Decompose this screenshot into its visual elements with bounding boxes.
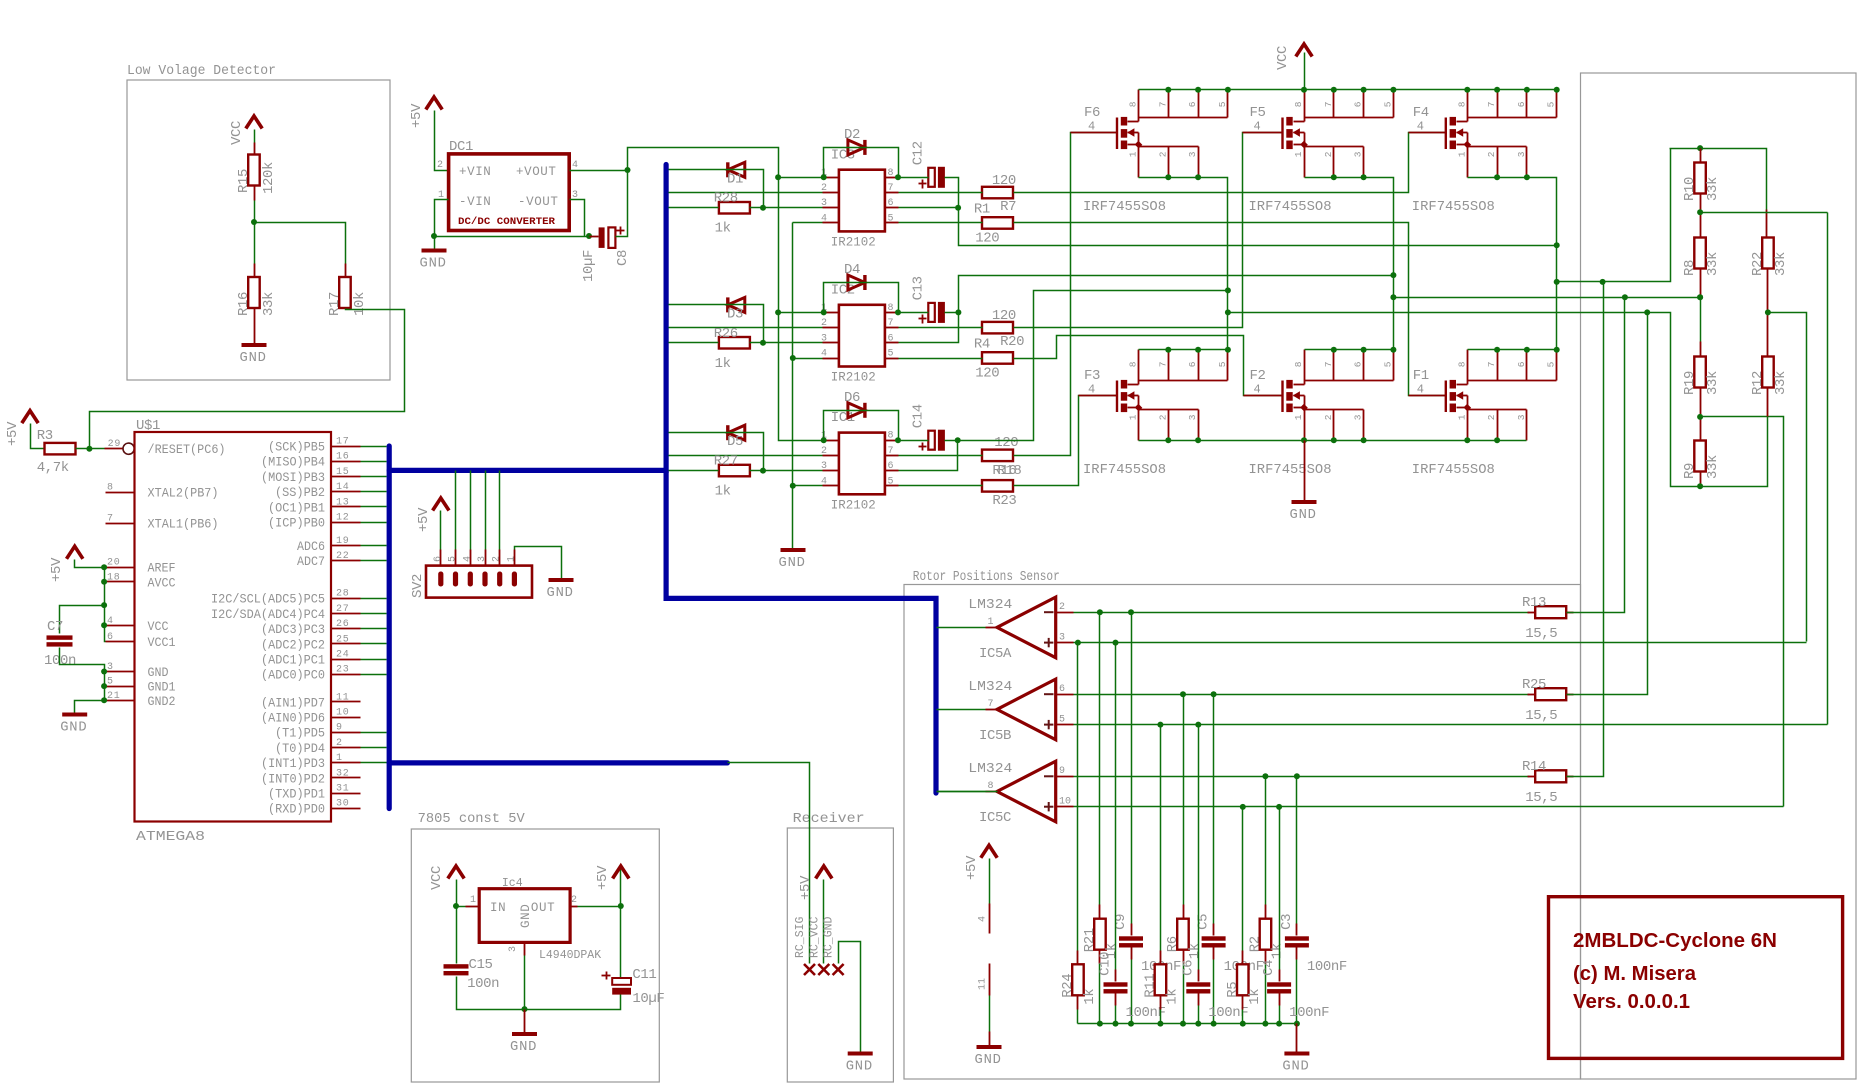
pin 17 (SCK)PB5 <box>268 437 361 455</box>
svg-text:27: 27 <box>336 604 350 615</box>
wire R22 bottom to R12 top, midpoint tap <box>1765 269 1807 642</box>
svg-text:(ADC2)PC2: (ADC2)PC2 <box>261 638 325 652</box>
svg-text:-VOUT: -VOUT <box>518 195 559 209</box>
wire pin 26 to bus <box>361 628 387 630</box>
svg-text:IC3: IC3 <box>831 147 855 163</box>
svg-text:RC_SIG: RC_SIG <box>794 916 807 958</box>
pins 1 2 3 F4 <box>1456 147 1527 178</box>
wire phase C to R10 top <box>1670 148 1701 150</box>
svg-text:3: 3 <box>477 556 488 562</box>
svg-text:100nF: 100nF <box>1307 959 1347 975</box>
frame Receiver box <box>787 812 893 1082</box>
wire IC4 gnd node <box>522 956 528 1033</box>
svg-text:5: 5 <box>1217 361 1228 367</box>
svg-text:20: 20 <box>107 558 121 569</box>
svg-text:R3: R3 <box>37 428 53 444</box>
wire bus to D3 to pin3 node <box>669 305 764 343</box>
resistor R1 120 <box>974 202 1013 247</box>
pin 7 XTAL1(PB6) <box>106 514 219 532</box>
wire COM rail to ground <box>790 223 796 550</box>
wire SV2 pins to bus <box>456 471 500 567</box>
svg-text:R8: R8 <box>1682 260 1698 276</box>
svg-text:D1: D1 <box>727 171 743 187</box>
svg-text:R21: R21 <box>1082 928 1098 952</box>
pin 8 XTAL2(PB7) <box>106 483 219 501</box>
svg-text:7: 7 <box>1323 102 1334 108</box>
wire pin 12 to bus <box>361 522 387 524</box>
wire phase A node <box>1139 174 1228 349</box>
svg-text:R16: R16 <box>236 292 252 316</box>
svg-text:R18: R18 <box>997 463 1021 479</box>
svg-text:4: 4 <box>1417 120 1424 134</box>
svg-text:17: 17 <box>336 437 350 448</box>
wire source ground rail <box>1139 437 1527 500</box>
svg-text:LM324: LM324 <box>968 762 1012 777</box>
svg-text:15,5: 15,5 <box>1525 790 1557 806</box>
svg-text:120: 120 <box>992 173 1016 189</box>
svg-text:IC2: IC2 <box>831 282 855 298</box>
capacitor C6 100nF <box>1180 725 1248 1024</box>
wire divider tap to R17 <box>255 223 346 278</box>
svg-text:R5: R5 <box>1225 982 1241 998</box>
svg-text:(ADC0)PC0: (ADC0)PC0 <box>261 669 325 683</box>
svg-text:7: 7 <box>1157 362 1168 368</box>
svg-text:Vers. 0.0.0.1: Vers. 0.0.0.1 <box>1573 991 1690 1013</box>
svg-text:8: 8 <box>888 303 894 314</box>
svg-text:RC_GND: RC_GND <box>823 916 836 958</box>
diode D5 <box>727 425 745 450</box>
svg-text:6: 6 <box>433 556 444 562</box>
power +5V symbol (AVCC) <box>49 546 83 582</box>
svg-text:IRF7455SO8: IRF7455SO8 <box>1412 463 1495 478</box>
wire pin 23 to bus <box>361 674 387 676</box>
wire SV2 pin1 to ground <box>515 547 562 579</box>
pin 23 (ADC0)PC0 <box>261 665 361 683</box>
power +5V symbol (DC1 input) <box>409 97 442 128</box>
svg-text:(AIN1)PD7: (AIN1)PD7 <box>261 696 325 710</box>
svg-text:4: 4 <box>1417 383 1424 397</box>
svg-text:8: 8 <box>1128 101 1139 107</box>
svg-text:+5V: +5V <box>798 875 814 900</box>
resistor R21 1k <box>1082 613 1120 1024</box>
capacitor C5 100nF <box>1196 695 1264 1024</box>
transistor F5 IRF7455 <box>1243 105 1308 149</box>
svg-text:25: 25 <box>336 634 350 645</box>
frame 7805 box <box>411 812 659 1082</box>
node RC_VCC <box>808 916 829 975</box>
svg-text:IRF7455SO8: IRF7455SO8 <box>1249 200 1332 215</box>
capacitor C9 100nF <box>1113 613 1181 1024</box>
wire pin 2 to bus <box>361 747 387 749</box>
svg-text:+VOUT: +VOUT <box>516 165 557 179</box>
svg-text:IRF7455SO8: IRF7455SO8 <box>1083 463 1166 478</box>
svg-text:18: 18 <box>107 572 121 583</box>
svg-text:C8: C8 <box>615 250 631 266</box>
pin 25 (ADC2)PC2 <box>261 634 361 652</box>
svg-text:3: 3 <box>1059 632 1065 643</box>
wire bootstrap D4 <box>821 283 901 316</box>
pin 19 ADC6 <box>297 536 361 554</box>
svg-text:C13: C13 <box>911 276 927 300</box>
svg-text:3: 3 <box>1353 414 1364 420</box>
svg-text:(MISO)PB4: (MISO)PB4 <box>261 456 325 470</box>
svg-text:AVCC: AVCC <box>148 576 176 590</box>
svg-text:6: 6 <box>888 198 894 209</box>
svg-text:GND: GND <box>846 1060 873 1075</box>
svg-text:8: 8 <box>1293 101 1304 107</box>
pins 8 7 6 5 F2 <box>1293 350 1394 381</box>
svg-text:9: 9 <box>336 723 343 734</box>
svg-text:3: 3 <box>1187 151 1198 157</box>
svg-text:33k: 33k <box>1773 252 1789 276</box>
pin 4 LM324 power <box>978 859 990 934</box>
wire pin 19 to bus <box>361 545 387 547</box>
svg-text:1: 1 <box>470 895 476 906</box>
svg-text:8: 8 <box>1293 361 1304 367</box>
resistor R24 1k <box>1060 643 1098 1024</box>
ground GND (mcu) <box>60 715 87 736</box>
wire C14 left <box>899 440 929 442</box>
resistor R7 120 <box>982 173 1016 215</box>
svg-text:5: 5 <box>1382 361 1393 367</box>
svg-text:+5V: +5V <box>5 421 21 446</box>
svg-text:2: 2 <box>1323 151 1334 157</box>
svg-text:GND: GND <box>148 666 169 680</box>
svg-text:4: 4 <box>1088 120 1095 134</box>
svg-text:6: 6 <box>1516 101 1527 107</box>
svg-text:8: 8 <box>1128 361 1139 367</box>
pin 24 (ADC1)PC1 <box>261 650 361 668</box>
wire pin 4 COM stub IC1 <box>793 485 823 487</box>
pins 1 2 3 F6 <box>1128 147 1199 178</box>
svg-text:120: 120 <box>975 231 999 247</box>
ground GND (7805) <box>510 1034 537 1055</box>
transistor F2 IRF7455 <box>1244 368 1308 412</box>
svg-text:2: 2 <box>1157 151 1168 157</box>
ic IC2 IR2102 body <box>821 282 899 384</box>
svg-text:9: 9 <box>1059 766 1065 777</box>
pin 3 GND <box>106 662 169 680</box>
resistor R4 120 <box>974 337 1013 382</box>
svg-text:30: 30 <box>336 799 350 810</box>
power VCC symbol (7805) <box>429 866 464 890</box>
svg-text:3: 3 <box>107 662 114 673</box>
wire bus to R28 to pin 3 <box>669 205 823 211</box>
svg-text:VCC: VCC <box>148 620 169 634</box>
wire DC1 -VIN to ground rail <box>431 200 592 250</box>
svg-text:VCC: VCC <box>429 866 445 890</box>
svg-text:LM324: LM324 <box>968 598 1012 613</box>
svg-text:6: 6 <box>1353 361 1364 367</box>
svg-text:2: 2 <box>571 895 577 906</box>
svg-text:8: 8 <box>1456 101 1467 107</box>
svg-text:1: 1 <box>1128 414 1139 420</box>
svg-text:(ICP)PB0: (ICP)PB0 <box>268 517 325 531</box>
bus main <box>389 165 936 809</box>
wire pin 14 to bus <box>361 491 387 493</box>
svg-text:(INT1)PD3: (INT1)PD3 <box>261 757 325 771</box>
wire pin 27 to bus <box>361 613 387 615</box>
svg-text:6: 6 <box>1187 101 1198 107</box>
svg-text:VCC: VCC <box>1275 46 1291 70</box>
svg-text:15: 15 <box>336 467 350 478</box>
svg-text:11: 11 <box>336 692 350 703</box>
wire pin 1 to bus <box>361 762 387 764</box>
resistor R10 33k <box>1682 149 1721 202</box>
resistor R11 1k <box>1142 725 1180 1024</box>
wire rail to ground <box>1296 1024 1298 1053</box>
svg-text:3: 3 <box>1353 151 1364 157</box>
svg-text:IC5B: IC5B <box>979 728 1011 744</box>
resistor R27 1k <box>714 454 750 500</box>
svg-text:2: 2 <box>1157 414 1168 420</box>
svg-text:5: 5 <box>888 213 894 224</box>
wire pin 13 to bus <box>361 506 387 508</box>
svg-text:GND: GND <box>60 721 87 736</box>
pin 11 LM324 power <box>978 964 990 1032</box>
svg-text:15,5: 15,5 <box>1525 626 1557 642</box>
wire phase A sense row <box>1225 309 1701 486</box>
svg-text:7: 7 <box>1486 102 1497 108</box>
svg-text:24: 24 <box>336 650 350 661</box>
wire RC ground rail <box>1078 1021 1300 1027</box>
svg-text:5: 5 <box>1546 101 1557 107</box>
svg-text:GND: GND <box>975 1053 1002 1068</box>
svg-text:4,7k: 4,7k <box>37 460 69 476</box>
svg-text:6: 6 <box>107 632 114 643</box>
svg-text:4: 4 <box>1088 383 1095 397</box>
pin 32 (INT0)PD2 <box>261 768 361 786</box>
svg-text:1k: 1k <box>1187 943 1203 959</box>
label F5 IRF7455SO8 <box>1249 200 1332 215</box>
op-amp IC5A LM324 <box>937 597 1074 662</box>
svg-text:8: 8 <box>107 483 114 494</box>
diode D2 bootstrap <box>844 127 865 155</box>
svg-text:R27: R27 <box>714 454 738 470</box>
wire R10 top to R22 top <box>1697 145 1766 238</box>
svg-text:100n: 100n <box>467 976 499 992</box>
pin 28 I2C/SCL(ADC5)PC5 <box>211 589 361 607</box>
svg-text:5: 5 <box>107 677 114 688</box>
svg-text:GND: GND <box>779 556 806 571</box>
svg-text:120k: 120k <box>261 162 277 194</box>
svg-text:I2C/SDA(ADC4)PC4: I2C/SDA(ADC4)PC4 <box>211 608 325 622</box>
pin 15 (MOSI)PB3 <box>261 467 361 485</box>
svg-text:R12: R12 <box>1750 371 1766 395</box>
wire bus to D5 to pin3 node <box>669 433 764 471</box>
wire bus to R26 to pin 3 <box>669 340 823 346</box>
capacitor C11 10uF <box>525 907 665 1010</box>
svg-text:5: 5 <box>888 476 894 487</box>
svg-text:15,5: 15,5 <box>1525 708 1557 724</box>
wire pin 15 to bus <box>361 476 387 478</box>
svg-text:AREF: AREF <box>148 562 176 576</box>
node RC_SIG <box>794 916 815 975</box>
pins 8 7 6 5 F4 <box>1456 90 1556 118</box>
pin 16 (MISO)PB4 <box>261 452 361 470</box>
pin 12 (ICP)PB0 <box>268 513 361 531</box>
resistor R17 <box>327 277 368 316</box>
wire IC1 LO to R23 to F3 gate <box>899 396 1118 486</box>
wire IC3 VS to phase C <box>899 178 1560 249</box>
wire +5V rail to IR2102 VCC pins <box>628 148 824 441</box>
svg-text:L4940DPAK: L4940DPAK <box>539 949 601 962</box>
svg-text:1: 1 <box>1128 151 1139 157</box>
svg-text:(SS)PB2: (SS)PB2 <box>275 486 325 500</box>
svg-text:(AIN0)PD6: (AIN0)PD6 <box>261 712 325 726</box>
resistor R23 120 <box>982 480 1016 509</box>
diode D4 bootstrap <box>844 262 865 290</box>
ground GND (DC1) <box>420 251 447 272</box>
svg-text:8: 8 <box>1456 361 1467 367</box>
svg-text:11: 11 <box>978 978 989 990</box>
wire R19 bottom tap to IC5C+ <box>1697 388 1783 807</box>
svg-text:16: 16 <box>336 452 350 463</box>
svg-text:7: 7 <box>888 446 894 457</box>
wire pin 4 COM stub IC2 <box>793 358 823 360</box>
svg-text:D3: D3 <box>727 306 743 322</box>
pins 8 7 6 5 F1 <box>1456 350 1556 381</box>
wire phase C sense row <box>1554 149 1671 285</box>
power +5V symbol (LM324 pin4) <box>964 845 997 880</box>
capacitor C8 10uF <box>581 227 631 283</box>
ground GND (RC rail) <box>1282 1054 1309 1075</box>
ground GND (receiver) <box>846 1054 873 1075</box>
wire GND2 to ground symbol <box>75 701 105 714</box>
svg-text:13: 13 <box>336 497 350 508</box>
svg-text:R11: R11 <box>1142 974 1158 998</box>
svg-text:5: 5 <box>1382 101 1393 107</box>
svg-text:10µF: 10µF <box>581 250 597 282</box>
svg-text:120: 120 <box>994 435 1018 451</box>
svg-text:2: 2 <box>492 556 503 562</box>
svg-text:R1: R1 <box>974 202 990 218</box>
wire R9 bottom to R12 bottom <box>1697 388 1767 490</box>
pin 29 /RESET(PC6) <box>148 443 226 457</box>
svg-text:R23: R23 <box>992 493 1016 509</box>
svg-text:22: 22 <box>336 551 350 562</box>
capacitor C7 100n <box>44 619 76 669</box>
resistor R6 1k <box>1165 695 1203 1024</box>
pin 10 (AIN0)PD6 <box>261 708 361 726</box>
wire IC2 VS to phase B <box>899 272 1397 342</box>
svg-text:C10: C10 <box>1098 952 1114 976</box>
svg-text:3: 3 <box>508 946 519 952</box>
svg-text:5: 5 <box>888 349 894 360</box>
svg-text:C4: C4 <box>1261 960 1277 976</box>
label F2 IRF7455SO8 <box>1249 463 1332 478</box>
ground GND (drivers) <box>779 550 806 571</box>
wire VCC to IC4 IN <box>453 880 466 910</box>
svg-text:Rotor Positions Sensor: Rotor Positions Sensor <box>913 570 1060 585</box>
wire pin 9 to bus <box>361 732 387 734</box>
svg-text:GND1: GND1 <box>148 681 176 695</box>
svg-text:33k: 33k <box>1705 371 1721 395</box>
ic IC3 IR2102 body <box>821 147 899 249</box>
pin 29 /RESET inversion circle <box>105 439 135 454</box>
transistor F6 IRF7455 <box>1071 105 1143 149</box>
power +5V symbol (7805 out) <box>595 865 629 890</box>
svg-text:6: 6 <box>1187 361 1198 367</box>
svg-text:2MBLDC-Cyclone 6N: 2MBLDC-Cyclone 6N <box>1573 930 1777 952</box>
svg-text:IR2102: IR2102 <box>831 498 876 512</box>
svg-text:1k: 1k <box>715 356 731 372</box>
capacitor C12 <box>911 141 945 188</box>
svg-text:4: 4 <box>1254 120 1261 134</box>
transistor F1 IRF7455 <box>1409 368 1472 412</box>
dc/dc converter DC1 <box>437 139 578 231</box>
resistor R18 120 <box>982 435 1021 479</box>
capacitor C13 <box>911 276 945 323</box>
svg-text:XTAL2(PB7): XTAL2(PB7) <box>148 487 219 501</box>
svg-text:R25: R25 <box>1522 677 1546 693</box>
svg-text:32: 32 <box>336 768 350 779</box>
pin 1 (INT1)PD3 <box>261 753 361 771</box>
svg-text:GND: GND <box>1282 1060 1309 1075</box>
svg-text:3: 3 <box>1516 414 1527 420</box>
resistor R3 4,7k <box>37 428 76 476</box>
svg-text:1: 1 <box>1456 414 1467 420</box>
svg-text:I2C/SCL(ADC5)PC5: I2C/SCL(ADC5)PC5 <box>211 593 325 607</box>
svg-text:4: 4 <box>978 916 989 922</box>
svg-text:2: 2 <box>1486 151 1497 157</box>
svg-text:33k: 33k <box>1773 371 1789 395</box>
wire R8 bottom to R19 top <box>1697 269 1703 357</box>
svg-text:100nF: 100nF <box>1126 1005 1166 1021</box>
wire C13 left <box>899 312 929 314</box>
svg-text:(TXD)PD1: (TXD)PD1 <box>268 788 325 802</box>
pin 18 AVCC <box>106 572 176 590</box>
wire bus HIN to pin 2 IC1 <box>669 455 823 457</box>
svg-text:7: 7 <box>1157 102 1168 108</box>
resistor R19 33k <box>1682 357 1721 396</box>
svg-text:R20: R20 <box>1000 334 1024 350</box>
pin 9 (T1)PD5 <box>275 723 361 741</box>
svg-text:Ic4: Ic4 <box>502 877 523 890</box>
wire IC3 HO to R7 to F4 gate <box>899 133 1446 193</box>
svg-text:29: 29 <box>108 439 122 450</box>
power +5V symbol (receiver) <box>798 866 832 900</box>
svg-text:120: 120 <box>975 366 999 382</box>
svg-text:GND: GND <box>1290 508 1317 523</box>
svg-text:C14: C14 <box>911 404 927 428</box>
wire F2 drain rail <box>1305 347 1397 353</box>
resistor R20 120 <box>982 308 1024 350</box>
svg-text:R2: R2 <box>1247 936 1263 952</box>
wire VCC rail top <box>1139 53 1560 93</box>
svg-text:1k: 1k <box>1164 989 1180 1005</box>
svg-text:3: 3 <box>1187 414 1198 420</box>
svg-text:6: 6 <box>1059 684 1065 695</box>
svg-text:(OC1)PB1: (OC1)PB1 <box>268 501 325 515</box>
svg-text:1: 1 <box>987 617 993 628</box>
svg-text:XTAL1(PB6): XTAL1(PB6) <box>148 518 219 532</box>
svg-text:7: 7 <box>888 183 894 194</box>
wire +5V to RC_VCC <box>823 880 825 964</box>
wire IC4 out to +5V <box>578 867 624 910</box>
svg-text:GND: GND <box>547 586 574 601</box>
wire bus to RC_SIG <box>728 763 810 964</box>
transistor F4 IRF7455 <box>1409 105 1472 149</box>
svg-text:10: 10 <box>1059 797 1071 808</box>
regulator IC4 L4940DPAK <box>466 877 602 962</box>
svg-text:33k: 33k <box>1705 455 1721 479</box>
resistor R8 33k <box>1682 238 1721 277</box>
svg-text:3: 3 <box>1516 151 1527 157</box>
ground GND (LM324) <box>975 1032 1002 1069</box>
svg-text:C15: C15 <box>469 957 493 973</box>
svg-text:VCC: VCC <box>229 121 245 145</box>
